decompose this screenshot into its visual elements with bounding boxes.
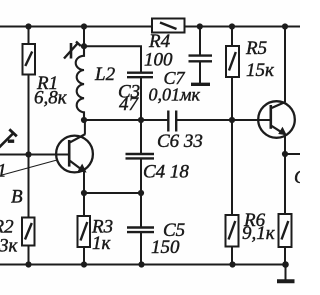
wire C5 bottom stem (140, 233, 142, 265)
wire R3 top stem (83, 193, 85, 216)
wire mid node line y=120 left of C6 (84, 119, 168, 121)
wire mid node line y=120 right of C6 (177, 119, 270, 121)
capacitor C3 (127, 73, 153, 78)
junction: R5 / R6 / VT2 base node (229, 117, 235, 123)
svg-text:9,1к: 9,1к (242, 223, 276, 244)
wire R2 top stem (28, 155, 30, 218)
junction: top bus / R5 (229, 23, 235, 29)
junction: C3 / C4 node (138, 117, 144, 123)
wire R1 bottom stem to base node (28, 75, 30, 155)
junction: bottom bus / R3 (81, 261, 87, 267)
capacitor C5 (127, 228, 154, 233)
wire C3 bottom to mid node (140, 78, 142, 121)
wire R5 top stem (231, 27, 233, 47)
junction: VT2 emitter output node (282, 151, 288, 157)
junction: bottom bus / C5 (138, 261, 144, 267)
wire C4 top stem (140, 120, 142, 154)
wire VT1 base line (0, 154, 69, 156)
junction: top bus / L2 branch (81, 23, 87, 29)
wire bottom common bus (0, 264, 286, 266)
wire R6 bottom stem (231, 247, 233, 265)
wire VT2 emitter output to right edge (285, 153, 300, 155)
wire R5 bottom stem (231, 77, 233, 120)
resistor R3 (78, 216, 91, 247)
wire C4 bottom stem (140, 159, 142, 194)
wire VT1 emitter line y=193 (84, 192, 141, 194)
junction: C4 / C5 node (138, 190, 144, 196)
svg-text:R5: R5 (245, 38, 267, 59)
wire R1 top stem (28, 27, 30, 45)
resistor R1 (23, 44, 36, 75)
capacitor C4 (126, 154, 155, 158)
resistor R6 (226, 215, 239, 247)
transistor VT2 (258, 101, 295, 138)
wire R6 top stem (231, 120, 233, 215)
resistor R2 (22, 218, 35, 246)
wire from L2 top node to C3 (84, 46, 141, 72)
resistor R5 (226, 46, 239, 77)
svg-text:В: В (11, 187, 23, 208)
svg-text:150: 150 (151, 237, 180, 258)
svg-text:R2: R2 (0, 217, 14, 238)
junction: L2 bottom / VT1 collector (81, 117, 87, 123)
wire VT1 emitter vertical (83, 172, 85, 193)
junction: top bus / R1 (25, 23, 31, 29)
resistor R4 (152, 19, 185, 33)
wire VT2 collector vertical (284, 27, 286, 103)
junction: top bus / C7 (197, 23, 203, 29)
wire VT2 emitter vertical (284, 135, 286, 154)
svg-text:0,01мк: 0,01мк (149, 85, 201, 105)
wire R2 bottom stem (28, 246, 30, 265)
wire ground stem (285, 265, 287, 280)
junction: VT1 base / R1 / R2 node (25, 151, 31, 157)
resistor emitter load (right edge) (279, 214, 292, 247)
wire top bus left segment (0, 26, 152, 28)
svg-text:С: С (294, 167, 300, 188)
wire C7 bottom stem (199, 62, 201, 84)
tuning arrow at left edge (cropped) (0, 129, 17, 147)
wire output resistor bottom stem (284, 247, 286, 265)
junction: L2 top node (81, 43, 87, 49)
svg-text:6,8к: 6,8к (34, 88, 68, 109)
svg-text:47: 47 (119, 94, 140, 115)
wire C5 top stem (140, 193, 142, 227)
wire VT2 emitter to output resistor (284, 154, 286, 214)
capacitor C7 (189, 56, 213, 62)
svg-text:1к: 1к (92, 233, 112, 254)
leader line to VT1 label (2, 160, 57, 175)
junction: VT1 emitter / R3 node (81, 190, 87, 196)
svg-text:15к: 15к (246, 60, 275, 81)
svg-text:3к: 3к (0, 236, 19, 257)
ground symbol bottom right (277, 279, 295, 283)
junction: bottom bus / ground (282, 261, 289, 268)
tuning arrow on L2 (64, 42, 81, 59)
transistor VT1 (56, 134, 93, 173)
ground bar under C7 (191, 83, 210, 86)
junction: top bus / VT2 collector (282, 23, 288, 29)
inductor L2 (76, 46, 84, 120)
wire L2 top stem from top bus (83, 27, 85, 47)
svg-text:С4 18: С4 18 (143, 162, 189, 183)
capacitor C6 (168, 111, 176, 132)
wire top bus right segment (185, 26, 301, 28)
junction: bottom bus / R2 (25, 261, 31, 267)
svg-text:1: 1 (0, 161, 7, 182)
svg-text:L2: L2 (94, 64, 116, 85)
junction: bottom bus / R6 (229, 261, 235, 267)
svg-text:С6 33: С6 33 (157, 131, 203, 152)
wire R3 bottom stem (83, 247, 85, 265)
wire C7 top stem (199, 27, 201, 56)
wire VT1 collector vertical (84, 120, 86, 134)
